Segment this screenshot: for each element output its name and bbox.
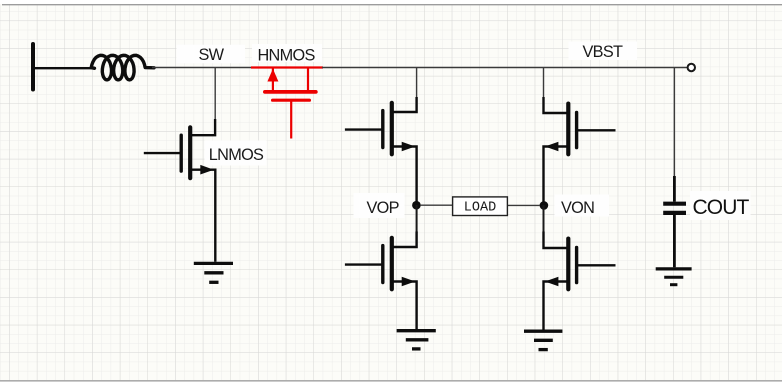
node VOP dot [412, 201, 421, 210]
label SW [177, 45, 246, 63]
transistor LNMOS [144, 119, 216, 262]
transistor M3 (upper right, mirrored) [544, 97, 616, 205]
transistor HNMOS (red, rotated) [265, 68, 316, 139]
svg-text:COUT: COUT [693, 196, 750, 219]
inductor L1 [91, 55, 154, 80]
svg-text:VON: VON [561, 199, 594, 217]
wire rail to M3 drain [543, 68, 545, 99]
wire input to inductor [33, 67, 95, 69]
wire LOAD to VON [508, 204, 540, 206]
transistor M1 (upper left) [345, 97, 417, 205]
wire rail to COUT [673, 68, 675, 177]
label VBST [569, 42, 638, 61]
input terminal bar [31, 44, 35, 90]
wire VON to M4 drain [543, 205, 545, 233]
ground under M4 [524, 331, 562, 349]
ground under M2 [397, 331, 436, 349]
svg-text:LNMOS: LNMOS [209, 146, 264, 164]
label COUT [690, 191, 751, 220]
wire rail to M1 drain [416, 68, 418, 99]
node SW wire down [214, 68, 216, 122]
label VOP [354, 193, 405, 218]
VBST open terminal [688, 64, 695, 71]
label VON [555, 195, 610, 217]
svg-text:LOAD: LOAD [464, 201, 496, 216]
capacitor COUT [663, 176, 686, 267]
ground under COUT [656, 269, 692, 285]
svg-text:SW: SW [199, 46, 225, 64]
ground under LNMOS [194, 263, 233, 282]
label HNMOS [252, 44, 322, 62]
svg-text:VBST: VBST [583, 43, 623, 61]
wire rail right (HNMOS to VBST terminal) [322, 67, 688, 69]
load box [453, 197, 508, 216]
wire rail red section under HNMOS [251, 66, 323, 68]
transistor M2 (lower left) [345, 232, 417, 330]
wire VOP to M2 drain [416, 205, 418, 233]
svg-text:HNMOS: HNMOS [258, 46, 316, 64]
transistor M4 (lower right, mirrored) [544, 232, 616, 330]
node VON dot [540, 201, 549, 210]
wire rail left (coil to red section) [152, 67, 252, 69]
svg-text:VOP: VOP [367, 199, 399, 217]
wire VOP to LOAD [421, 204, 452, 206]
label LNMOS [205, 141, 267, 166]
